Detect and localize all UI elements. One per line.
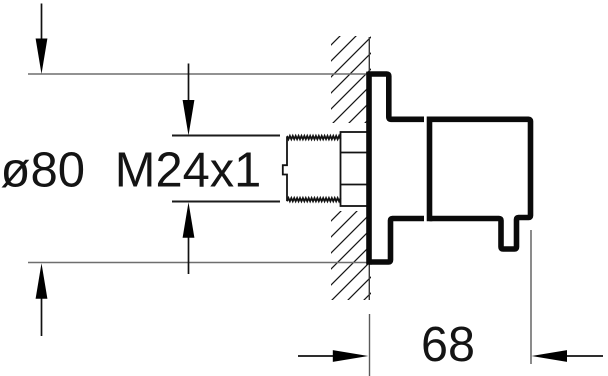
- svg-text:68: 68: [421, 317, 475, 372]
- svg-text:ø80: ø80: [1, 143, 86, 198]
- svg-text:M24x1: M24x1: [115, 143, 261, 198]
